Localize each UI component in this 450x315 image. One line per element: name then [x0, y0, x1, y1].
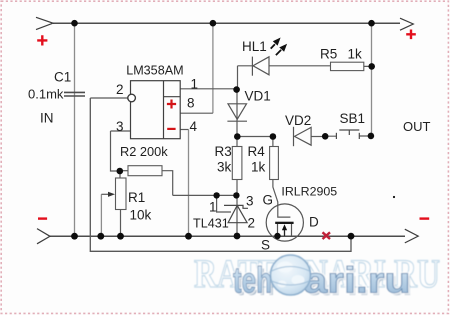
svg-text:OUT: OUT — [403, 119, 431, 134]
svg-text:SB1: SB1 — [340, 111, 366, 126]
svg-text:R5: R5 — [320, 47, 337, 62]
svg-text:3k: 3k — [217, 160, 232, 175]
svg-text:1k: 1k — [348, 47, 363, 62]
svg-text:3: 3 — [246, 194, 254, 209]
svg-text:IN: IN — [40, 111, 54, 126]
svg-text:VD1: VD1 — [245, 89, 271, 104]
svg-text:D: D — [309, 215, 319, 230]
svg-text:R4: R4 — [248, 144, 266, 159]
svg-text:ari.ru: ari.ru — [304, 260, 411, 301]
svg-text:10k: 10k — [130, 208, 152, 223]
svg-text:R1: R1 — [128, 190, 145, 205]
svg-text:1: 1 — [191, 77, 199, 92]
svg-text:HL1: HL1 — [242, 39, 267, 54]
svg-text:VD2: VD2 — [285, 113, 311, 128]
svg-text:8: 8 — [187, 96, 195, 111]
svg-text:1k: 1k — [251, 160, 266, 175]
svg-text:R2 200k: R2 200k — [120, 144, 168, 159]
svg-text:LM358AM: LM358AM — [126, 64, 183, 78]
svg-text:TL431: TL431 — [193, 217, 229, 231]
svg-text:3: 3 — [116, 119, 124, 134]
svg-text:1: 1 — [209, 200, 217, 215]
svg-text:teh: teh — [233, 260, 272, 301]
svg-text:4: 4 — [190, 119, 198, 134]
svg-text:0.1mk: 0.1mk — [28, 87, 64, 102]
svg-text:C1: C1 — [54, 70, 71, 85]
svg-text:2: 2 — [248, 216, 256, 231]
svg-text:2: 2 — [116, 82, 124, 97]
svg-text:R3: R3 — [215, 144, 232, 159]
svg-text:IRLR2905: IRLR2905 — [281, 185, 337, 199]
svg-text:G: G — [263, 193, 274, 208]
